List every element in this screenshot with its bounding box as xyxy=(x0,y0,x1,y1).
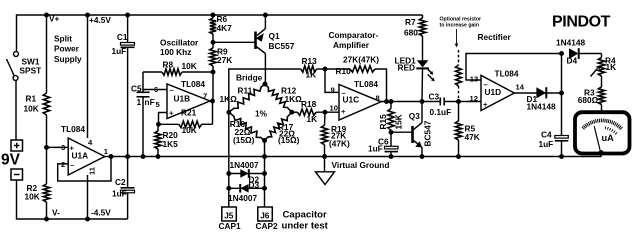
node bridge right xyxy=(289,110,294,115)
svg-text:Q1: Q1 xyxy=(269,31,280,41)
resistor R18 1K xyxy=(292,99,339,124)
node D2 right xyxy=(262,171,267,176)
svg-text:CAP1: CAP1 xyxy=(219,221,242,231)
capacitor C2 1uF xyxy=(112,157,135,220)
svg-text:C5: C5 xyxy=(131,84,142,94)
svg-text:Rectifier: Rectifier xyxy=(478,32,512,42)
node R15 top xyxy=(389,99,394,104)
svg-text:R1: R1 xyxy=(26,94,37,104)
node U1B output xyxy=(210,99,215,104)
node U1A output xyxy=(109,154,114,159)
wire U1D pin13 feedback xyxy=(466,54,562,81)
node bridge top xyxy=(263,82,268,87)
svg-text:47K: 47K xyxy=(465,132,480,142)
wire bridge bottom to J6 xyxy=(264,141,266,208)
svg-text:1uF: 1uF xyxy=(539,139,554,149)
resistor R16 22ohm xyxy=(229,112,265,145)
svg-text:1KΩ: 1KΩ xyxy=(285,94,303,104)
wire D1 node vertical xyxy=(561,54,563,136)
node pin5/R20/R21 xyxy=(156,122,161,127)
svg-text:+: + xyxy=(341,107,346,116)
node R8/R9 junction xyxy=(211,70,216,75)
svg-text:V-: V- xyxy=(52,208,60,218)
resistor R21 10K xyxy=(159,108,213,136)
optional resistor dashed xyxy=(456,50,462,100)
svg-text:1N4007: 1N4007 xyxy=(228,193,257,203)
svg-text:Capacitor: Capacitor xyxy=(283,209,328,220)
wire pin3 xyxy=(47,146,69,148)
svg-text:1uF: 1uF xyxy=(112,46,127,56)
wire bridge left feed to R13 xyxy=(229,69,301,112)
op-amp U1A xyxy=(61,124,109,175)
svg-text:1KΩ: 1KΩ xyxy=(220,94,238,104)
battery 9V xyxy=(1,140,23,180)
svg-text:10K: 10K xyxy=(25,192,40,202)
svg-text:13: 13 xyxy=(470,74,478,83)
node bridge left xyxy=(226,110,231,115)
svg-text:uA: uA xyxy=(602,133,615,143)
svg-text:R10: R10 xyxy=(336,66,352,76)
meter uA xyxy=(575,112,630,155)
resistor R13 1K xyxy=(301,56,325,80)
wire R4 to R3 xyxy=(601,76,603,87)
svg-text:27K(47K): 27K(47K) xyxy=(343,55,379,65)
svg-text:1K: 1K xyxy=(606,62,617,72)
node Q1 emitter top xyxy=(263,13,268,18)
wire U1A pin11 xyxy=(87,175,89,219)
capacitor C5 1nF xyxy=(131,72,155,157)
svg-text:TL084: TL084 xyxy=(495,68,519,78)
node D2 left xyxy=(226,171,231,176)
node R1/R2/pin3 xyxy=(44,145,49,150)
svg-text:Oscillator: Oscillator xyxy=(160,37,199,47)
label Capacitor under test xyxy=(282,209,329,231)
node R18/R19/pin10 xyxy=(323,110,328,115)
node D1 out xyxy=(559,91,564,96)
svg-text:RED: RED xyxy=(398,63,416,73)
resistor R19 27K(47K) xyxy=(321,112,350,156)
svg-text:Optional resistor: Optional resistor xyxy=(440,16,482,22)
op-amp U1C xyxy=(330,79,382,120)
wire U1B pin5 xyxy=(159,113,168,125)
svg-text:U1B: U1B xyxy=(174,94,191,104)
wire virtual ground mid rail xyxy=(105,152,601,157)
svg-text:1: 1 xyxy=(137,97,142,107)
resistor R6 4K7 xyxy=(210,14,232,48)
resistor R20 1K5 xyxy=(155,124,178,156)
node R5 top / pin12 xyxy=(456,99,461,104)
svg-text:to increase gain: to increase gain xyxy=(440,23,480,29)
node +4.5V xyxy=(85,13,90,18)
wire bridge left to J5 xyxy=(228,112,230,207)
wire U1A pin4 xyxy=(87,15,89,138)
resistor R8 10K xyxy=(143,60,213,76)
svg-text:1K5: 1K5 xyxy=(163,139,179,149)
svg-text:680Ω: 680Ω xyxy=(578,95,599,105)
svg-text:Split: Split xyxy=(54,34,72,44)
resistor R10 27K(47K) xyxy=(325,55,387,102)
svg-text:TL084: TL084 xyxy=(354,79,378,89)
label Split Power Supply xyxy=(54,34,82,65)
resistor R11 1K xyxy=(220,84,266,112)
wire top V+ rail xyxy=(17,15,423,52)
svg-text:R18: R18 xyxy=(301,99,317,109)
svg-text:9: 9 xyxy=(331,85,335,94)
svg-text:10K: 10K xyxy=(182,61,197,71)
svg-text:9V: 9V xyxy=(1,152,21,169)
node R2 bottom xyxy=(44,217,49,222)
op-amp U1B xyxy=(154,79,210,119)
wire switch to battery xyxy=(15,80,17,140)
svg-text:4K7: 4K7 xyxy=(217,23,233,33)
svg-text:U1A: U1A xyxy=(72,151,89,161)
resistor R2 10K xyxy=(25,147,50,219)
wire U1C pin9 xyxy=(325,69,339,92)
op-amp U1D xyxy=(470,68,525,110)
node C1 top xyxy=(125,13,130,18)
svg-text:Bridge: Bridge xyxy=(236,72,263,82)
svg-text:C2: C2 xyxy=(115,177,126,187)
node R6 top xyxy=(211,13,216,18)
svg-text:C3: C3 xyxy=(429,92,440,102)
wire U1C output xyxy=(381,101,440,103)
svg-text:R11: R11 xyxy=(238,86,253,96)
capacitor C4 1uF xyxy=(539,130,569,157)
svg-text:680: 680 xyxy=(404,28,418,38)
svg-text:27K: 27K xyxy=(217,55,232,65)
svg-text:1%: 1% xyxy=(255,109,268,119)
svg-text:15K: 15K xyxy=(394,114,404,129)
svg-text:Supply: Supply xyxy=(54,54,82,64)
diode D4 1N4148 xyxy=(556,37,602,65)
svg-text:PINDOT: PINDOT xyxy=(552,13,611,30)
node U1C output / R10 feedback xyxy=(384,99,389,104)
svg-text:+4.5V: +4.5V xyxy=(89,15,111,25)
node R13/R10/pin9 xyxy=(323,67,328,72)
svg-text:14: 14 xyxy=(516,83,525,92)
svg-text:1K: 1K xyxy=(307,114,318,124)
svg-text:V+: V+ xyxy=(49,14,60,24)
svg-text:8: 8 xyxy=(376,94,380,103)
svg-text:–: – xyxy=(70,161,74,170)
svg-text:10K: 10K xyxy=(24,104,39,114)
svg-text:(15Ω): (15Ω) xyxy=(233,135,255,145)
svg-text:4: 4 xyxy=(88,138,93,147)
wire U1B pin6 xyxy=(143,89,167,91)
node R6/R9/base xyxy=(211,40,216,45)
svg-text:TL084: TL084 xyxy=(181,79,205,89)
svg-text:R15: R15 xyxy=(378,114,388,130)
svg-text:7: 7 xyxy=(203,92,207,101)
svg-text:10K: 10K xyxy=(182,125,197,135)
connector J6 xyxy=(256,207,279,231)
resistor R12 1K xyxy=(265,84,302,112)
svg-text:C1: C1 xyxy=(117,32,128,42)
svg-text:Q3: Q3 xyxy=(409,111,420,121)
svg-text:Comparator-: Comparator- xyxy=(329,30,379,40)
node R20 bottom rail xyxy=(156,154,161,159)
svg-text:R13: R13 xyxy=(302,56,318,66)
svg-text:Virtual Ground: Virtual Ground xyxy=(332,160,390,170)
svg-text:+: + xyxy=(483,100,488,109)
node D3 left xyxy=(226,186,231,191)
svg-text:BC547: BC547 xyxy=(423,120,433,146)
svg-text:BC557: BC557 xyxy=(269,41,295,51)
svg-text:R21: R21 xyxy=(181,108,197,118)
node Q3 emitter rail xyxy=(420,154,425,159)
svg-text:Amplifier: Amplifier xyxy=(333,40,370,50)
transistor Q1 BC557 xyxy=(256,15,295,84)
svg-text:10: 10 xyxy=(330,103,338,112)
node R5 bottom rail xyxy=(456,154,461,159)
svg-text:1N4148: 1N4148 xyxy=(556,37,585,47)
diode D1 1N4148 xyxy=(514,87,561,111)
arrow note to resistor xyxy=(455,29,459,48)
svg-text:0.1uF: 0.1uF xyxy=(430,107,452,117)
svg-text:5: 5 xyxy=(156,100,161,109)
resistor R5 47K xyxy=(455,102,479,157)
node R19 bottom rail xyxy=(322,154,327,159)
resistor R4 1K potentiometer xyxy=(591,54,617,77)
transistor Q3 BC547 xyxy=(409,102,433,157)
svg-text:R7: R7 xyxy=(405,17,416,27)
node C2 branch xyxy=(125,154,130,159)
node bridge bottom rail xyxy=(262,154,267,159)
diode D3 1N4007 xyxy=(228,180,265,203)
svg-text:U1D: U1D xyxy=(485,87,502,97)
resistor R7 680 xyxy=(404,15,426,60)
capacitor C3 0.1uF xyxy=(429,92,482,117)
svg-text:R8: R8 xyxy=(163,60,174,70)
svg-text:SPST: SPST xyxy=(20,66,42,76)
svg-text:1N4148: 1N4148 xyxy=(527,102,556,112)
resistor R17 22ohm xyxy=(265,112,300,145)
node D3 right xyxy=(262,186,267,191)
node R15/C6/Q3 base xyxy=(389,130,394,135)
svg-text:1N4007: 1N4007 xyxy=(230,160,259,170)
capacitor C6 1uF xyxy=(368,132,398,156)
svg-text:nF: nF xyxy=(145,97,155,107)
LED1 RED xyxy=(395,55,435,101)
diode D2 1N4007 xyxy=(229,160,265,185)
label Oscillator 100 Khz xyxy=(160,37,199,57)
resistor R3 680ohm xyxy=(578,87,605,112)
wire Q3 base xyxy=(391,131,412,133)
resistor R9 27K xyxy=(210,47,232,102)
node C4 bottom rail xyxy=(559,154,564,159)
wire U1A feedback xyxy=(58,157,111,182)
svg-text:Power: Power xyxy=(54,44,80,54)
node pin11 bottom xyxy=(85,217,90,222)
node C5 bottom rail xyxy=(141,154,146,159)
node LED/Q3 collector xyxy=(420,99,425,104)
svg-text:3: 3 xyxy=(61,143,65,152)
svg-text:1: 1 xyxy=(104,147,109,156)
svg-text:1uF: 1uF xyxy=(368,144,383,154)
svg-text:J6: J6 xyxy=(260,210,270,220)
node V+ xyxy=(44,13,49,18)
svg-text:(15Ω): (15Ω) xyxy=(278,135,300,145)
capacitor C1 1uF xyxy=(112,15,135,157)
svg-text:+: + xyxy=(169,109,174,118)
label Comparator-Amplifier xyxy=(329,30,379,50)
svg-text:CAP2: CAP2 xyxy=(256,221,279,231)
node C6 bottom rail xyxy=(389,154,394,159)
svg-text:-4.5V: -4.5V xyxy=(91,208,111,218)
svg-text:D4: D4 xyxy=(567,56,578,66)
svg-text:(47K): (47K) xyxy=(329,139,350,149)
switch SW1 SPST xyxy=(7,52,42,81)
resistor R15 15K xyxy=(378,102,404,133)
svg-text:U1C: U1C xyxy=(343,95,360,105)
node bridge bottom xyxy=(262,138,267,143)
svg-text:under test: under test xyxy=(282,220,329,231)
wire Q1 base xyxy=(213,41,255,43)
svg-text:100 Khz: 100 Khz xyxy=(160,47,191,57)
svg-text:12: 12 xyxy=(470,94,478,103)
resistor R1 10K xyxy=(24,15,50,147)
node D4 branch xyxy=(559,51,564,56)
svg-text:TL084: TL084 xyxy=(61,124,85,134)
svg-text:1K: 1K xyxy=(306,70,317,80)
label optional resistor note xyxy=(440,16,482,28)
ground symbol virtual ground xyxy=(316,157,335,185)
wire U1B output to R21 xyxy=(212,101,214,124)
svg-text:1uF: 1uF xyxy=(112,189,127,199)
connector J5 xyxy=(219,207,242,231)
svg-text:D3: D3 xyxy=(249,180,260,190)
svg-text:11: 11 xyxy=(88,166,97,175)
svg-text:J5: J5 xyxy=(224,210,234,220)
wire battery minus to V- rail xyxy=(17,180,128,219)
